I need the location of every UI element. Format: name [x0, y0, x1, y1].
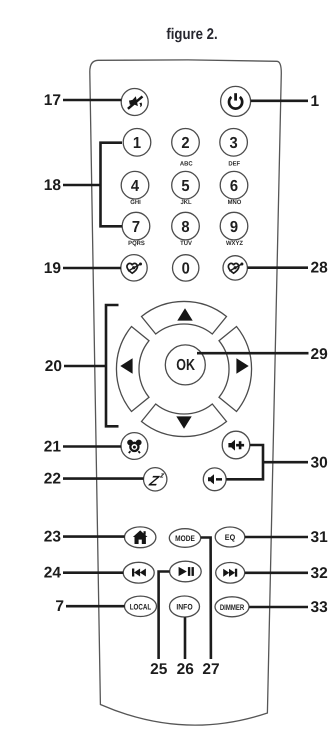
svg-text:INFO: INFO: [176, 603, 192, 612]
leader line 22: [63, 477, 144, 480]
leader line 33: [249, 606, 308, 609]
leader line 24: [63, 571, 123, 574]
svg-text:LOCAL: LOCAL: [130, 602, 152, 611]
icon power: [229, 93, 242, 108]
key 4: [121, 171, 149, 199]
svg-text:5: 5: [181, 178, 189, 195]
arrow right: [236, 358, 248, 373]
svg-text:7: 7: [132, 219, 140, 236]
leader line 21: [63, 445, 121, 448]
leader line 19: [63, 267, 121, 270]
svg-text:MNO: MNO: [228, 199, 242, 206]
svg-text:2: 2: [181, 135, 189, 152]
leader line 7: [66, 605, 125, 608]
leader line 27: [201, 538, 211, 660]
svg-text:GHI: GHI: [130, 199, 141, 206]
svg-text:21: 21: [44, 439, 62, 456]
svg-text:DEF: DEF: [228, 161, 240, 168]
leader line 23: [63, 535, 125, 538]
svg-text:WXYZ: WXYZ: [226, 240, 243, 247]
key 2: [172, 129, 200, 157]
svg-text:33: 33: [311, 599, 329, 616]
button alarm (21): [121, 433, 148, 460]
button OK (29): [165, 345, 205, 385]
svg-text:OK: OK: [176, 357, 195, 374]
leader line 30: [263, 461, 308, 464]
leader line 32: [245, 571, 308, 574]
svg-text:19: 19: [44, 260, 62, 277]
svg-text:0: 0: [182, 261, 190, 278]
svg-text:23: 23: [44, 529, 62, 546]
key 8: [172, 212, 200, 240]
svg-text:17: 17: [44, 92, 61, 109]
arrow down: [176, 416, 191, 428]
leader line 31: [245, 536, 308, 539]
svg-text:9: 9: [230, 219, 238, 236]
button vol+ (30): [222, 431, 250, 459]
svg-text:18: 18: [44, 177, 62, 194]
key 3: [220, 129, 248, 157]
leader line 29: [197, 352, 309, 355]
svg-text:25: 25: [150, 661, 168, 678]
bracket 18: [101, 143, 123, 227]
svg-text:ABC: ABC: [180, 161, 193, 168]
svg-text:27: 27: [202, 661, 219, 678]
key 1: [123, 129, 151, 157]
svg-text:22: 22: [44, 471, 61, 488]
button home (23): [125, 527, 156, 548]
leader line 20: [64, 365, 106, 368]
d-pad ring segment up: [142, 301, 227, 334]
leader line 25: [159, 572, 170, 660]
leader line 28: [248, 266, 309, 269]
button vol- (30): [203, 468, 226, 491]
svg-text:MODE: MODE: [175, 534, 195, 543]
button EQ (31): [215, 527, 245, 547]
d-pad ring segment right: [219, 327, 252, 412]
key 7: [122, 212, 150, 240]
icon mute speaker: [128, 96, 143, 109]
leader line 1: [251, 100, 308, 103]
svg-text:3: 3: [230, 135, 238, 152]
svg-text:8: 8: [181, 219, 189, 236]
d-pad ring segment left: [116, 327, 149, 412]
svg-text:6: 6: [230, 178, 238, 195]
button sleep (22): [144, 468, 167, 491]
button MODE (27): [169, 529, 200, 548]
svg-text:TUV: TUV: [180, 240, 193, 247]
svg-text:1: 1: [311, 93, 320, 110]
button power (1): [221, 86, 251, 116]
d-pad ring segment down: [142, 404, 227, 437]
button next (32): [216, 563, 245, 584]
svg-text:29: 29: [311, 346, 329, 363]
svg-text:7: 7: [55, 598, 64, 615]
leader line 26: [184, 617, 187, 659]
key 6: [220, 171, 248, 199]
button prev (24): [123, 562, 154, 583]
button play/pause (25): [170, 561, 202, 582]
key 5: [172, 171, 200, 199]
svg-text:30: 30: [311, 454, 328, 471]
arrow up: [177, 308, 192, 320]
key 9: [220, 212, 248, 240]
svg-text:DIMMER: DIMMER: [220, 603, 244, 612]
button DIMMER (33): [215, 597, 249, 617]
svg-text:28: 28: [311, 260, 329, 277]
svg-text:24: 24: [44, 565, 62, 582]
key 0: [173, 255, 199, 281]
button INFO (26): [170, 596, 200, 617]
svg-text:PQRS: PQRS: [128, 240, 145, 247]
bracket 20: [106, 305, 119, 426]
remote body outline: [90, 60, 282, 725]
svg-text:1: 1: [133, 135, 141, 152]
arrow left: [120, 358, 132, 373]
svg-text:4: 4: [131, 178, 139, 195]
leader line 17: [63, 99, 121, 102]
svg-text:figure 2.: figure 2.: [166, 26, 217, 43]
svg-text:JKL: JKL: [180, 199, 191, 206]
svg-text:31: 31: [311, 529, 329, 546]
svg-text:EQ: EQ: [225, 533, 235, 542]
svg-text:32: 32: [311, 565, 328, 582]
button LOCAL (7): [125, 596, 157, 616]
button mute (17): [121, 89, 148, 116]
svg-text:26: 26: [177, 661, 195, 678]
leader line 18: [63, 184, 101, 187]
button preset-left heart (19): [121, 255, 147, 281]
svg-text:20: 20: [45, 358, 62, 375]
button preset-right heart (28): [223, 256, 247, 280]
bracket 30: [226, 445, 263, 479]
